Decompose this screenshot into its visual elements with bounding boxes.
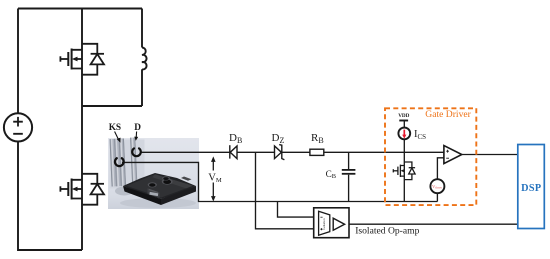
svg-text:DZ: DZ bbox=[272, 132, 285, 145]
svg-text:DB: DB bbox=[229, 132, 242, 145]
svg-text:Vthres: Vthres bbox=[432, 184, 443, 190]
svg-text:D: D bbox=[134, 123, 141, 133]
svg-text:Isolated Op-amp: Isolated Op-amp bbox=[355, 226, 419, 237]
svg-text:VM: VM bbox=[208, 172, 222, 184]
svg-text:Gate Driver: Gate Driver bbox=[425, 109, 471, 120]
svg-text:CB: CB bbox=[326, 169, 336, 180]
svg-text:DSP: DSP bbox=[521, 183, 541, 194]
svg-text:KS: KS bbox=[109, 123, 121, 133]
svg-text:Isolation: Isolation bbox=[322, 218, 326, 230]
svg-text:VDD: VDD bbox=[398, 113, 409, 119]
svg-text:ICS: ICS bbox=[414, 129, 426, 141]
svg-text:RB: RB bbox=[311, 132, 324, 145]
